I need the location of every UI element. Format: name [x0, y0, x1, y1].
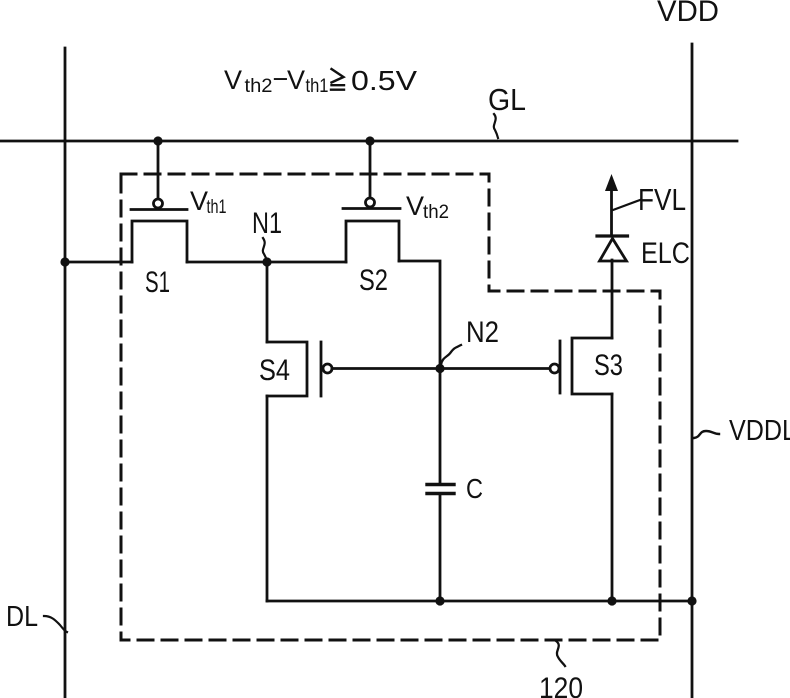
svg-text:N2: N2: [466, 316, 499, 349]
svg-text:120: 120: [539, 672, 583, 698]
arrow FVL (light emission): [605, 174, 618, 235]
label 120: [539, 641, 583, 698]
svg-text:0.5V: 0.5V: [351, 65, 417, 96]
wire S4 gate to N2: [332, 367, 440, 370]
wire DL to S1 source: [65, 261, 132, 264]
svg-text:VDD: VDD: [657, 0, 719, 28]
svg-text:V: V: [190, 186, 208, 216]
wire S1 drain to N1: [187, 261, 267, 264]
annotation Vth2-Vth1 >= 0.5V: [224, 64, 417, 97]
junction dot: S3 on rail: [607, 596, 616, 605]
wire N1 down to S4: [266, 262, 269, 342]
svg-text:FVL: FVL: [638, 182, 686, 217]
svg-text:th2: th2: [245, 76, 273, 97]
junction dot: DL to S1: [60, 257, 69, 266]
transistor S2 (TFT): [343, 198, 400, 262]
label VDDL: [694, 415, 790, 447]
svg-text:C: C: [466, 473, 483, 504]
label FVL: [613, 182, 686, 217]
wire S1 gate drop: [157, 141, 160, 199]
dashed pixel boundary 120: [121, 174, 660, 640]
junction dot: S2 gate on GL: [365, 136, 374, 145]
wire S2 drain to N2 (step right then down): [399, 261, 440, 369]
transistor S3: [550, 338, 612, 394]
wire VDD (power line, vertical): [691, 44, 694, 698]
junction dot: capacitor on rail: [435, 596, 444, 605]
svg-text:ELC: ELC: [641, 237, 690, 270]
svg-text:th1: th1: [306, 76, 329, 97]
wire N2 to S3 gate: [440, 367, 550, 370]
svg-text:th1: th1: [207, 197, 227, 218]
svg-text:−: −: [273, 64, 289, 94]
svg-text:GL: GL: [488, 82, 526, 117]
svg-text:V: V: [224, 65, 242, 95]
svg-text:th2: th2: [423, 202, 449, 223]
junction dot: S1 gate on GL: [153, 136, 162, 145]
svg-text:S4: S4: [259, 354, 290, 387]
svg-text:S1: S1: [145, 266, 170, 299]
node N2: [435, 364, 444, 373]
svg-text:V: V: [406, 191, 424, 221]
diode ELC (organic EL element): [597, 236, 628, 261]
wire S2 gate drop: [369, 141, 372, 198]
label GL: [488, 82, 526, 138]
svg-text:N1: N1: [252, 207, 282, 240]
wire S4 drain down to bottom rail: [266, 396, 269, 601]
bottom rail wire: [267, 600, 692, 603]
wire GL (gate line, horizontal): [0, 140, 737, 143]
wire N2 down to capacitor: [439, 369, 442, 483]
wire S3 drain down to bottom rail: [611, 394, 614, 601]
capacitor C: [427, 485, 454, 494]
label N1: [252, 207, 282, 260]
node N1: [262, 257, 271, 266]
svg-text:V: V: [287, 65, 305, 95]
transistor S4: [267, 342, 332, 396]
wire N1 to S2 source: [267, 261, 346, 264]
transistor S1 (TFT): [131, 199, 187, 262]
svg-text:S2: S2: [359, 264, 388, 297]
svg-text:VDDL: VDDL: [729, 415, 790, 447]
junction dot: rail to VDD line: [687, 596, 696, 605]
svg-text:S3: S3: [594, 349, 623, 382]
label N2: [441, 316, 499, 365]
wire DL (data line, vertical): [64, 48, 67, 698]
wire capacitor to bottom rail: [439, 495, 442, 601]
label DL: [6, 601, 67, 633]
wire ELC to S3: [611, 260, 614, 338]
svg-text:DL: DL: [6, 601, 38, 633]
